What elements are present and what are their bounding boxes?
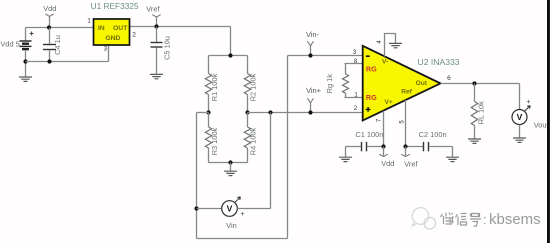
label R2 100k [248, 73, 257, 101]
power port Vdd bottom [379, 147, 394, 169]
svg-text:U2 INA333: U2 INA333 [418, 57, 460, 67]
wire U1 out to Vref rail [130, 26, 231, 28]
svg-text:5: 5 [399, 120, 405, 124]
svg-text:OUT: OUT [113, 25, 128, 32]
wire bottom run [197, 238, 288, 240]
resistor R4 [244, 113, 250, 163]
node Vref junction [154, 24, 158, 28]
watermark text kbsems [483, 211, 541, 228]
wire left leg [196, 113, 198, 239]
ground Vout [513, 125, 526, 143]
voltage source Vin [222, 197, 245, 218]
resistor R1 [205, 56, 211, 113]
node RL tap [472, 81, 476, 85]
node Vdd junction [47, 25, 51, 29]
svg-text:GND: GND [105, 35, 120, 42]
svg-text:Vref: Vref [146, 4, 160, 13]
op-amp U2 INA333 [363, 46, 441, 121]
svg-text:Ref: Ref [401, 89, 412, 96]
power port Vref bottom [401, 147, 418, 169]
IC U1 REF3325 [94, 19, 130, 45]
svg-text:2: 2 [132, 32, 136, 39]
svg-text:C1 100n: C1 100n [355, 130, 383, 139]
svg-text:RG: RG [366, 64, 377, 73]
ground R3/R4 [224, 163, 237, 176]
svg-text:C2 100n: C2 100n [419, 130, 447, 139]
svg-text::: : [483, 212, 487, 227]
capacitor C4 [43, 28, 56, 62]
svg-text:IN: IN [98, 25, 105, 32]
ground C1 [339, 147, 352, 162]
capacitor C5 [151, 27, 163, 74]
wire right riser [287, 56, 289, 239]
battery VS1 Vdd 5V [20, 28, 34, 62]
svg-text:RG: RG [366, 93, 377, 102]
svg-text:V-: V- [382, 59, 388, 66]
label R1 100k [210, 73, 219, 101]
svg-text:Rg 1k: Rg 1k [325, 74, 334, 94]
ground V- [389, 43, 402, 47]
pin 8 U2 [354, 59, 358, 65]
wire to pin3 U2 [288, 55, 363, 57]
svg-text:R3 100k: R3 100k [210, 127, 219, 155]
pin 2 U1 [132, 32, 136, 39]
svg-text:V: V [517, 112, 523, 122]
wire to voltmeter [519, 84, 521, 110]
capacitor C2 [406, 142, 453, 151]
pin 7 U2 [377, 118, 383, 122]
node source minus [194, 206, 198, 210]
wire out [441, 83, 520, 85]
pin 2 U2 [354, 106, 358, 112]
wire Ref drop [405, 100, 407, 147]
svg-text:R4 100k: R4 100k [249, 127, 258, 155]
pin 1 U1 [87, 17, 91, 24]
svg-text:Vin-: Vin- [306, 30, 320, 39]
label C4 1u [53, 35, 62, 55]
resistor R2 [244, 56, 250, 113]
pin 4 U2 [377, 40, 383, 44]
svg-text:2: 2 [354, 106, 358, 112]
svg-text:C4 1u: C4 1u [53, 35, 62, 55]
node Vin+ tap [308, 110, 312, 114]
svg-text:R2 100k: R2 100k [248, 73, 257, 101]
node Vref-R junction [228, 53, 232, 57]
node R R2/R4 [245, 110, 249, 114]
pin 1 U2 [354, 93, 358, 99]
label R3 100k [210, 127, 219, 155]
svg-text:1: 1 [87, 17, 91, 24]
wire node L stub [197, 112, 209, 114]
label Rg 1k [325, 74, 334, 94]
svg-text:7: 7 [377, 118, 383, 122]
svg-text:4: 4 [377, 40, 383, 44]
label U2 INA333 [418, 57, 460, 67]
svg-text:Vin+: Vin+ [306, 86, 321, 95]
node Vdd/C1/V+ [381, 144, 385, 148]
label Vdd 5 [1, 40, 20, 49]
svg-text:Vref: Vref [404, 159, 418, 168]
svg-text:Vdd: Vdd [381, 159, 394, 168]
node Vin- tap [308, 53, 312, 57]
wire R1 R2 top [209, 55, 248, 57]
pin 3 U2 [353, 50, 357, 56]
watermark logo [412, 208, 436, 229]
svg-text:Vdd: Vdd [43, 4, 56, 13]
svg-text:RL 10k: RL 10k [477, 101, 486, 124]
node ground tap [228, 160, 232, 164]
wire node R to pin2 [248, 112, 363, 114]
label R4 100k [249, 127, 258, 155]
svg-text:3: 3 [103, 46, 107, 53]
port Vin+ [306, 86, 321, 113]
resistor R3 [205, 113, 211, 163]
label RL 10k [477, 101, 486, 124]
wire ground return [26, 61, 109, 63]
wire top left Vdd rail [26, 27, 94, 29]
pin 5 U2 [399, 120, 405, 124]
wire V- to ground [385, 34, 396, 57]
label Vout [534, 121, 549, 130]
ground C5 [150, 74, 163, 78]
capacitor C1 [346, 142, 384, 151]
resistor Rg [343, 64, 363, 98]
svg-text:+: + [240, 211, 244, 218]
voltmeter Vout [512, 99, 530, 124]
label C5 10u [162, 36, 171, 60]
power port Vdd top [43, 4, 56, 28]
svg-text:V+: V+ [384, 99, 392, 106]
border bar right edge [547, 0, 550, 243]
ground C2 [446, 147, 459, 162]
svg-text:6: 6 [447, 75, 451, 82]
power port Vref top [146, 4, 160, 26]
label C1 100n [355, 130, 383, 139]
svg-text:Vout: Vout [534, 121, 549, 130]
svg-text:R1 100k: R1 100k [210, 73, 219, 101]
svg-text:Vdd 5: Vdd 5 [1, 40, 20, 49]
pin 6 U2 [447, 75, 451, 82]
svg-text:Out: Out [416, 80, 428, 87]
label U1 REF3325 [91, 1, 139, 11]
node C4 bottom junction [47, 59, 51, 63]
label C2 100n [419, 130, 447, 139]
label Vin [226, 221, 237, 230]
wire Vref rail drop [230, 27, 232, 56]
watermark text wei xin hao [441, 213, 482, 227]
svg-text:V: V [227, 204, 233, 214]
wire R3 R4 bottom [209, 162, 248, 164]
svg-text:U1 REF3325: U1 REF3325 [91, 1, 139, 11]
port Vin- [306, 30, 320, 55]
wire U1 pin3 drop [108, 46, 110, 62]
wire source plus [237, 208, 270, 210]
resistor RL [471, 84, 477, 139]
svg-text:kbsems: kbsems [489, 211, 541, 228]
wire to source [197, 208, 222, 210]
wire plus riser [270, 113, 272, 209]
svg-text:Vin: Vin [226, 221, 237, 230]
ground battery [19, 62, 32, 82]
node V+ tap [268, 110, 272, 114]
node L R1/R3 [206, 110, 210, 114]
pin 3 U1 [103, 46, 107, 53]
svg-text:+: + [526, 99, 530, 106]
node battery junction [23, 59, 27, 63]
ground RL [468, 139, 481, 143]
wire V+ drop [383, 111, 385, 147]
svg-text:C5 10u: C5 10u [162, 36, 171, 60]
node Vref/C2/Ref [403, 144, 407, 148]
